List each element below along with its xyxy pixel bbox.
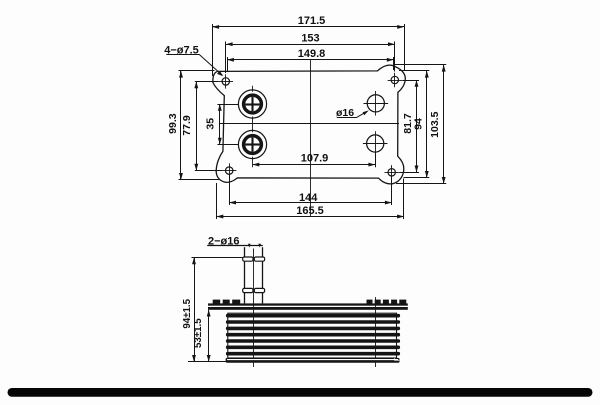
fin plates <box>226 314 400 356</box>
dimension 94 plus-minus 1.5 <box>182 258 243 362</box>
dimension 99.3 <box>167 71 220 180</box>
flange plate <box>208 303 408 309</box>
plate vertical centerline <box>310 60 312 217</box>
pipe tube <box>245 247 263 303</box>
port column centerline ticks <box>252 86 254 167</box>
label 2-dia16 arrowheads <box>248 244 261 248</box>
svg-text:171.5: 171.5 <box>298 15 326 27</box>
label 4-dia7.5 <box>164 44 223 76</box>
black watermark bar <box>8 388 593 397</box>
oil cooler plate outline (top view) <box>213 65 405 184</box>
pipe bead upper <box>243 257 265 261</box>
right projection line <box>375 297 377 367</box>
dimension 165.5 <box>217 179 404 220</box>
svg-text:94: 94 <box>413 118 425 130</box>
dimension 35 <box>205 104 239 145</box>
svg-text:99.3: 99.3 <box>167 113 179 134</box>
svg-text:77.9: 77.9 <box>181 115 193 136</box>
label dia16 <box>336 107 369 119</box>
svg-text:94±1.5: 94±1.5 <box>182 298 193 328</box>
oil port lower <box>238 130 266 158</box>
svg-text:165.5: 165.5 <box>296 205 324 217</box>
hole dia16 lower <box>363 131 388 156</box>
dimension 53 plus-minus 1.5 <box>193 310 211 362</box>
svg-text:103.5: 103.5 <box>429 111 441 137</box>
hole dia16 upper <box>364 91 389 116</box>
svg-text:149.8: 149.8 <box>298 48 326 60</box>
dimension 153 <box>226 33 395 73</box>
dimension 171.5 <box>212 15 404 76</box>
dimension 81.7 <box>399 80 419 173</box>
dimension 77.9 <box>181 81 222 170</box>
svg-text:153: 153 <box>301 33 319 45</box>
dimension 144 <box>229 175 392 206</box>
mounting hole top-right <box>388 73 402 87</box>
flange tabs right <box>367 300 407 304</box>
bottom end plate <box>226 358 400 363</box>
mounting hole top-left <box>219 74 233 88</box>
svg-text:53±1.5: 53±1.5 <box>193 318 204 348</box>
svg-text:144: 144 <box>299 192 318 204</box>
svg-text:35: 35 <box>205 118 217 130</box>
mounting hole bottom-left <box>222 163 236 177</box>
label 2-dia16 <box>207 236 263 248</box>
oil port upper <box>238 90 266 118</box>
svg-text:107.9: 107.9 <box>301 152 329 164</box>
pipe bead lower <box>243 288 265 292</box>
dimension 103.5 <box>394 65 446 184</box>
dimension 94 <box>399 71 429 178</box>
plate mid seam line <box>219 123 399 125</box>
pipe centerline <box>253 249 255 368</box>
mounting hole bottom-right <box>385 165 399 179</box>
flange tabs left <box>213 300 241 304</box>
dimension 149.8 <box>227 48 394 72</box>
fin stack body <box>228 313 397 358</box>
dimension 107.9 <box>253 152 376 167</box>
